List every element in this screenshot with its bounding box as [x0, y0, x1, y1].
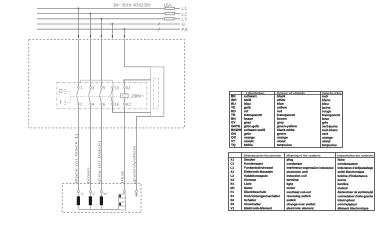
svg-text:élément électronique: élément électronique [337, 206, 368, 210]
svg-text:4: 4 [92, 102, 95, 107]
svg-text:TQ: TQ [231, 143, 236, 147]
svg-text:green/yellow: green/yellow [132, 145, 136, 183]
svg-text:black (or black 1): black (or black 1) [74, 132, 78, 183]
svg-text:2: 2 [80, 102, 83, 107]
svg-text:A1: A1 [126, 85, 132, 90]
svg-text:brown: brown [86, 168, 90, 184]
svg-text:U: U [81, 191, 84, 196]
svg-text:7,2: 7,2 [122, 94, 126, 98]
svg-text:Elektronik-Element: Elektronik-Element [244, 206, 272, 210]
svg-text:turquoise: turquoise [322, 143, 337, 147]
svg-text:1: 1 [80, 85, 83, 90]
svg-text:V: V [92, 191, 95, 196]
svg-text:16A: 16A [164, 2, 173, 7]
svg-text:türkis: türkis [244, 143, 253, 147]
svg-text:Interprétation des symboles: Interprétation des symboles [338, 153, 374, 157]
svg-text:turquoise: turquoise [277, 143, 292, 147]
svg-text:13: 13 [114, 85, 119, 90]
svg-text:230V~: 230V~ [131, 93, 144, 98]
svg-text:14: 14 [114, 102, 119, 107]
svg-text:PE: PE [182, 27, 189, 32]
svg-text:6: 6 [103, 102, 106, 107]
svg-text:3N~ 50Hz 400/230V: 3N~ 50Hz 400/230V [113, 3, 151, 8]
svg-text:W: W [103, 191, 107, 196]
svg-text:grey (or black): grey (or black) [97, 139, 101, 183]
svg-text:3: 3 [92, 85, 95, 90]
svg-text:5: 5 [103, 85, 106, 90]
svg-text:electronic element: electronic element [286, 206, 313, 210]
svg-text:V1: V1 [230, 206, 234, 210]
svg-text:A2: A2 [126, 102, 132, 107]
svg-text:blue: blue [120, 171, 124, 184]
